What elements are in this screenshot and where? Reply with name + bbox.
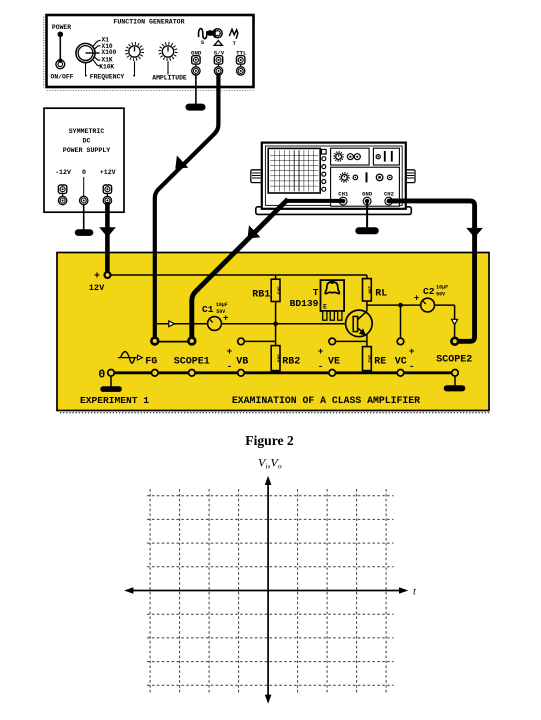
CH1 input jack: [338, 191, 349, 206]
wire from +12V terminal to board: [105, 202, 110, 274]
svg-text:EXAMINATION OF A CLASS AMPLIFI: EXAMINATION OF A CLASS AMPLIFIER: [232, 395, 420, 406]
ground symbol at 0V terminal: [100, 376, 122, 392]
arrow on signal line: [169, 321, 175, 327]
svg-text:-12V: -12V: [55, 169, 71, 176]
oscilloscope lower control panel: [331, 167, 400, 206]
svg-text:SCOPE1: SCOPE1: [174, 356, 210, 367]
waveform selector knob: [207, 29, 223, 46]
svg-text:POWER SUPPLY: POWER SUPPLY: [63, 147, 111, 154]
transistor Q1 symbol: [346, 310, 373, 337]
svg-text:3K3: 3K3: [275, 286, 281, 295]
svg-text:CH1: CH1: [338, 191, 349, 198]
svg-text:1K2: 1K2: [367, 354, 373, 363]
oscilloscope top-left control panel: [331, 148, 370, 165]
capacitor C1: [202, 302, 228, 330]
resistor RE: [363, 334, 387, 373]
svg-text:50V: 50V: [436, 291, 445, 297]
svg-text:-: -: [409, 361, 415, 372]
svg-text:10K: 10K: [367, 286, 373, 295]
svg-text:FUNCTION GENERATOR: FUNCTION GENERATOR: [113, 18, 184, 25]
svg-text:CH2: CH2: [384, 191, 395, 198]
0 terminal: [80, 169, 88, 205]
CH2 input jack: [384, 191, 395, 206]
oscilloscope button column: [322, 149, 327, 191]
svg-text:-: -: [318, 361, 324, 372]
svg-text:0: 0: [82, 169, 86, 176]
arrow toward SCOPE2: [452, 319, 458, 324]
wire from 0 terminal to ground: [83, 205, 85, 230]
resistor RL: [363, 275, 388, 301]
SCOPE2 jack: [451, 338, 458, 345]
arrow on S/V wire: [175, 156, 188, 169]
node at collector output: [398, 303, 403, 308]
svg-text:VC: VC: [395, 356, 407, 367]
arrow on CH1 wire: [248, 225, 261, 238]
resistor RB2: [271, 324, 300, 373]
oscilloscope screen with graticule: [268, 148, 320, 193]
svg-text:BD139: BD139: [290, 298, 319, 309]
svg-text:SYMMETRIC: SYMMETRIC: [69, 128, 105, 135]
-12V terminal: [55, 169, 71, 205]
svg-text:VE: VE: [328, 356, 340, 367]
graph grid: [147, 489, 394, 693]
svg-text:Figure 2: Figure 2: [245, 433, 294, 448]
12V input jack: [105, 272, 111, 278]
svg-text:SCOPE2: SCOPE2: [436, 355, 472, 366]
resistor RB1: [252, 275, 281, 324]
svg-text:POWER: POWER: [52, 24, 71, 31]
S/V output jack: [214, 50, 225, 76]
TTL output jack: [236, 50, 247, 76]
V axis (vertical): [265, 476, 272, 704]
wire from GND jack to ground: [195, 74, 197, 104]
svg-text:t: t: [413, 586, 417, 597]
svg-text:0: 0: [98, 369, 105, 382]
waveform selector: sine symbol S: [199, 29, 207, 46]
svg-text:+: +: [409, 346, 415, 357]
ground symbol below power supply: [75, 229, 94, 236]
wire from oscilloscope GND to ground: [366, 201, 368, 228]
svg-text:EXPERIMENT 1: EXPERIMENT 1: [80, 395, 149, 406]
+12V terminal: [100, 169, 116, 205]
svg-text:AMPLITUDE: AMPLITUDE: [152, 75, 187, 82]
board titles: [80, 395, 420, 406]
svg-text:GND: GND: [362, 191, 373, 198]
VE measure jack: [318, 338, 367, 372]
transistor BD139 package: [290, 280, 344, 320]
GND jack of oscilloscope: [362, 191, 373, 206]
experiment board: [57, 253, 491, 413]
wire from CH2 to SCOPE2 jack: [389, 201, 475, 341]
arrow on CH2 wire: [466, 228, 483, 238]
arrow on +12V wire: [99, 227, 116, 237]
VC measure jack: [395, 338, 415, 372]
svg-text:12V: 12V: [89, 283, 105, 293]
svg-text:X1K: X1K: [102, 57, 113, 64]
svg-text:RB1: RB1: [252, 289, 270, 300]
frequency range selector knob: [76, 37, 117, 71]
svg-text:+: +: [227, 346, 233, 357]
svg-text:-: -: [227, 361, 233, 372]
svg-text:C1: C1: [202, 304, 214, 315]
GND output jack: [191, 50, 202, 76]
svg-text:10µF: 10µF: [216, 302, 228, 308]
svg-text:RL: RL: [375, 289, 387, 300]
svg-text:Vi,Vo: Vi,Vo: [258, 456, 282, 471]
ground symbol at SCOPE2: [444, 376, 466, 391]
svg-text:DC: DC: [83, 138, 91, 145]
svg-text:ON/OFF: ON/OFF: [50, 73, 73, 80]
svg-text:+: +: [414, 294, 419, 304]
svg-text:C2: C2: [423, 286, 435, 297]
signal line from FG jack to transistor base: [155, 323, 354, 325]
frequency fine knob: [125, 42, 144, 61]
VB measure jack: [227, 338, 276, 372]
ground symbol below oscilloscope: [355, 227, 379, 234]
svg-text:VB: VB: [236, 356, 248, 367]
sine symbol at FG input: [118, 352, 142, 364]
svg-text:RE: RE: [374, 356, 386, 367]
0V terminal and jacks on ground rail: [98, 369, 458, 382]
svg-text:3K6: 3K6: [275, 354, 281, 363]
svg-text:FREQUENCY: FREQUENCY: [90, 74, 125, 81]
wire from S/V jack to FG jack on board: [155, 73, 219, 338]
collector line to C2 and SCOPE2: [367, 301, 455, 338]
svg-text:RB2: RB2: [282, 356, 300, 367]
FREQUENCY label with bracket: [86, 61, 135, 80]
svg-text:X10K: X10K: [99, 64, 114, 71]
SCOPE1 jack: [188, 338, 195, 345]
svg-text:FG: FG: [145, 356, 157, 367]
svg-text:T: T: [313, 287, 319, 298]
FG jack: [151, 338, 158, 345]
capacitor C2: [414, 285, 448, 312]
svg-text:+: +: [318, 346, 324, 357]
12V terminal label: [89, 272, 105, 293]
svg-text:10µF: 10µF: [436, 285, 448, 291]
symmetric DC power supply panel: [44, 108, 124, 212]
function generator panel: [44, 15, 255, 91]
svg-text:E: E: [323, 303, 327, 310]
wire between FG and SCOPE1 jacks: [155, 341, 192, 343]
waveform selector: triangle symbol T: [229, 29, 238, 47]
oscilloscope case: [251, 143, 415, 215]
node at voltage divider: [273, 322, 278, 327]
amplitude knob: [152, 42, 187, 82]
t axis (horizontal): [124, 586, 417, 597]
svg-text:+12V: +12V: [100, 169, 116, 176]
ground symbol below function generator: [186, 104, 206, 111]
svg-text:+: +: [94, 272, 100, 283]
svg-text:X100: X100: [102, 49, 117, 56]
power switch on function generator: [50, 24, 73, 80]
12V supply rail: [108, 274, 367, 276]
oscilloscope top-right control panel: [373, 148, 399, 165]
wire from CH1 to SCOPE1 jack: [288, 199, 344, 203]
svg-text:+: +: [223, 313, 228, 323]
0V ground rail: [111, 371, 455, 374]
